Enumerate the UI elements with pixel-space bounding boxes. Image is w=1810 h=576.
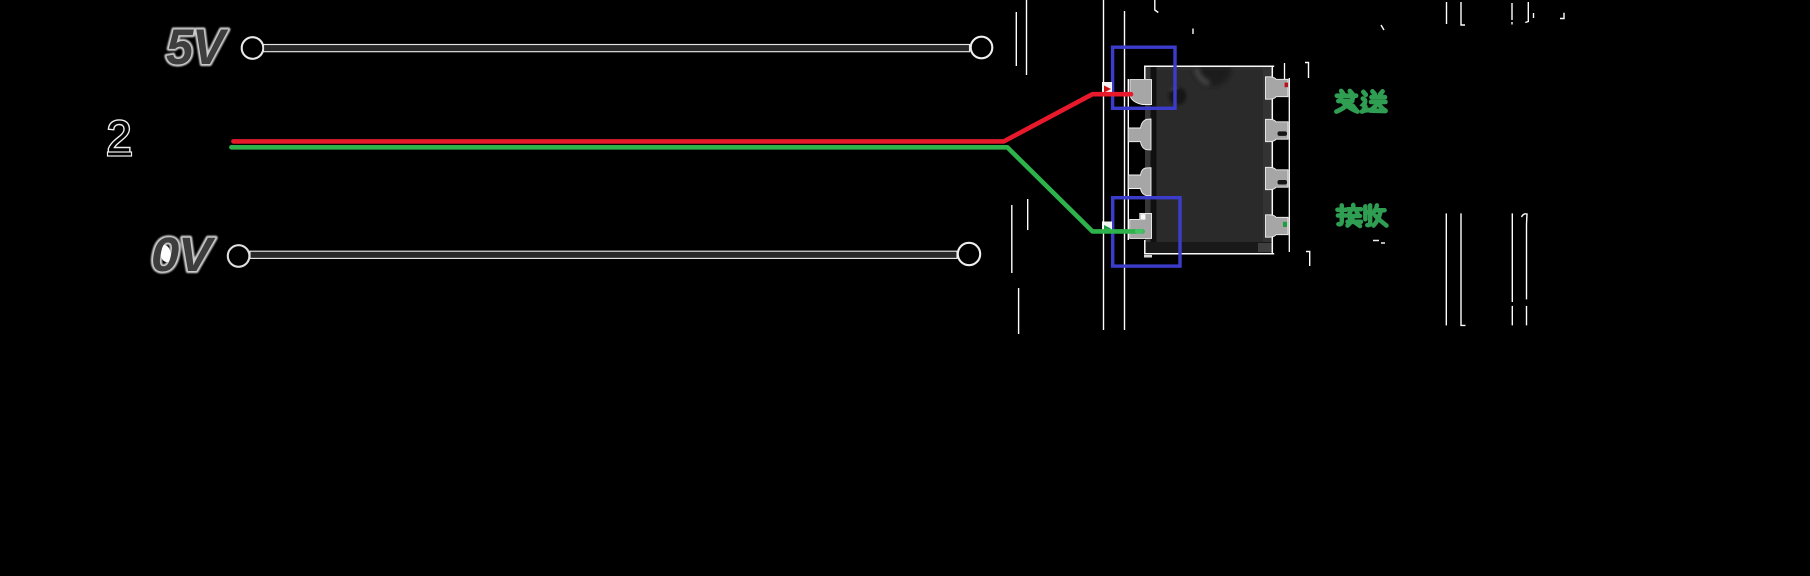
wire red <box>233 94 1131 141</box>
pins outer edge line right <box>1285 63 1290 252</box>
white speck pin4 <box>1141 214 1146 219</box>
pin 8 right <box>1266 77 1289 99</box>
terminal 0V right <box>958 243 980 265</box>
label fasong (send) <box>1336 91 1357 112</box>
IC U1 body <box>1145 66 1272 255</box>
IC pin1 dimple <box>1169 87 1187 105</box>
wire 0V <box>250 251 957 258</box>
terminal 5V right <box>971 37 993 59</box>
label jieshou (receive) <box>1337 205 1361 226</box>
artifact line low r1 <box>1445 213 1447 325</box>
pin 5 right <box>1266 215 1289 237</box>
artifact line e <box>1027 199 1029 230</box>
pin 6 notch <box>1278 180 1288 185</box>
artifact tick k <box>1192 29 1194 35</box>
highlight rect pin4 <box>1113 198 1180 266</box>
artifact dash top r5 <box>1533 13 1535 18</box>
wire green end tip <box>1137 229 1142 233</box>
artifact hook m <box>1305 63 1309 79</box>
pin 8 red tick <box>1285 83 1288 88</box>
artifact line c <box>1011 205 1013 273</box>
artifact line top r4 <box>1525 2 1528 23</box>
svg-text:5V: 5V <box>166 19 229 75</box>
artifact line top r2 <box>1461 2 1465 25</box>
wire green <box>231 147 1142 231</box>
artifact line b <box>1026 0 1028 75</box>
highlight rect pin1 <box>1113 47 1175 108</box>
terminal 5V left <box>242 37 264 59</box>
artifact line d <box>1018 288 1020 334</box>
white patch red crossing <box>1102 82 1112 95</box>
IC body outline <box>1144 66 1274 254</box>
artifact dash p <box>1381 25 1384 30</box>
artifact hook n <box>1306 252 1310 267</box>
net label 5V <box>166 19 229 75</box>
underline of 2 <box>108 152 132 156</box>
artifact dashes below label <box>1373 241 1385 244</box>
pin 3 left <box>1128 168 1151 196</box>
svg-text:0V: 0V <box>151 229 216 282</box>
artifact line a <box>1015 12 1017 66</box>
artifact hook j <box>1155 0 1159 13</box>
white counter of 0 <box>159 244 173 263</box>
artifact line low r4 <box>1522 214 1528 326</box>
pin 6 right <box>1266 167 1289 189</box>
artifact line i <box>1127 79 1129 240</box>
pin 4 left <box>1130 213 1152 238</box>
pin 1 left <box>1130 80 1152 105</box>
pin 2 left <box>1128 119 1151 150</box>
pin 5 green tick <box>1283 222 1287 227</box>
white patch green crossing <box>1102 222 1112 234</box>
artifact line low r3 <box>1511 213 1513 325</box>
pin 7 notch <box>1278 131 1288 136</box>
IC notch <box>1193 67 1232 86</box>
artifact line h <box>1124 11 1126 330</box>
wire 5V <box>264 45 970 52</box>
label 0V <box>151 229 216 282</box>
pin label 2 <box>109 121 129 152</box>
artifact hook top r6 <box>1560 13 1564 19</box>
artifact line top r3 <box>1511 3 1513 25</box>
artifact line low r2 <box>1461 213 1466 325</box>
artifact line g <box>1103 0 1105 330</box>
pin 7 right <box>1266 119 1289 141</box>
artifact line top r1 <box>1446 2 1448 24</box>
white speck below body <box>1144 255 1152 258</box>
terminal 0V left <box>228 245 250 267</box>
